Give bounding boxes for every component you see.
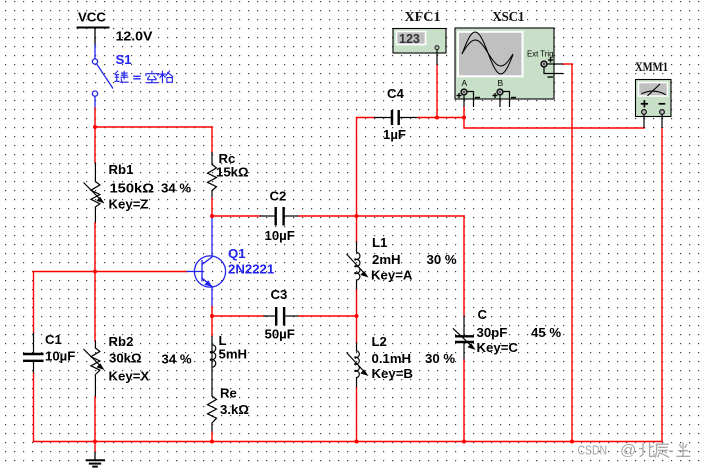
svg-text:VCC: VCC [78,10,106,25]
label key space [115,71,173,83]
junction ground rail at C [462,440,466,444]
transistor Q1 [194,256,225,287]
svg-text:10µF: 10µF [265,228,295,243]
wire collector blue [211,217,213,257]
svg-text:5mH: 5mH [219,347,248,362]
instrument XMM1 multimeter [635,60,671,128]
wire Rb1 lead bottom black [94,207,96,223]
capacitor C (variable) [455,336,474,342]
svg-text:30 %: 30 % [425,351,455,366]
wire row VCC node to Rc top [95,126,212,128]
inductor L [210,345,216,368]
svg-text:50µF: 50µF [265,327,295,342]
svg-text:Key=Z: Key=Z [109,197,149,212]
svg-text:Ext Trig: Ext Trig [527,50,553,59]
wire Rc lead top black [211,153,213,165]
wire XFC1 drop red [436,65,438,118]
svg-text:30pF: 30pF [477,325,508,340]
wire C4 row left red [357,117,375,119]
scope B terminal [497,89,503,95]
wire Rb2 top red [94,272,96,342]
hyphen [669,450,672,452]
XFC1 terminal [435,46,439,50]
scope trace big [462,32,513,74]
svg-text:S1: S1 [116,52,132,67]
svg-text:Rb1: Rb1 [109,162,134,177]
wire scope A plus drop red [463,107,465,118]
svg-text:45 %: 45 % [531,325,561,340]
wire scope A minus stub [467,92,474,108]
svg-text:XSC1: XSC1 [492,9,524,24]
wire L lead / L to Re black [211,337,213,397]
svg-text:2N2221: 2N2221 [228,262,274,277]
wire C3 left lead black [264,315,275,317]
wire XMM1 minus down red [661,128,663,442]
svg-text:C3: C3 [271,287,288,302]
XMM1 minus terminal [660,110,665,115]
wire Rc bottom to collector node [211,198,213,216]
switch S1 [92,59,113,96]
wire C3 row left [212,315,264,317]
glyph 北 [640,443,654,457]
resistor Rb2 (potentiometer) [84,348,105,375]
capacitor C2 [276,207,284,226]
capacitor C4 [392,110,399,125]
svg-text:CSDN: CSDN [578,443,608,458]
wire emitter node to L top [211,316,213,337]
svg-text:Key=A: Key=A [371,268,413,283]
wire scope B minus stub [503,92,510,108]
XMM1 plus terminal [642,110,647,115]
wire ext trig plus black [547,63,563,65]
wire Rb1 lead top black [94,163,96,182]
watermark [578,442,690,459]
svg-text:C: C [478,307,488,322]
wire ext trig minus stub [544,67,563,74]
wire L2 bottom red [356,388,358,442]
wire Rc top red [211,127,213,153]
svg-text:30 %: 30 % [427,252,457,267]
scope trace small [462,40,513,66]
glyph 尘 [677,443,690,456]
svg-text:C4: C4 [387,86,405,101]
svg-text:Rb2: Rb2 [109,334,134,349]
glyph 辰 [655,444,669,457]
wire ext trig plus red [563,63,572,65]
wire VCC lead black [94,28,96,46]
resistor Rc [208,165,217,191]
wire emitter blue [211,287,213,307]
wire S1 to node VB [94,108,96,127]
svg-text:Key=X: Key=X [109,369,150,384]
svg-text:150kΩ: 150kΩ [110,181,155,196]
wire C2 to node L1 top [299,215,357,217]
glyph 格 [159,71,172,83]
svg-text:Key=C: Key=C [477,340,519,355]
svg-text:Re: Re [220,386,237,401]
wire L1 leads black [356,242,358,252]
svg-text:30kΩ: 30kΩ [109,351,142,366]
wire Rb2 lead top black [94,341,96,348]
junction ground rail at Re [210,440,214,444]
junction node VB (95,127) [93,125,97,129]
wire Re lead bottom black [211,423,213,432]
wire C4 corner vertical [356,118,358,217]
svg-text:XMM1: XMM1 [635,60,668,74]
junction base node (95,271.5) [93,270,97,274]
junction L2 top (356.5,316) [355,314,359,318]
wire variable cap C top lead black [463,316,465,335]
wire x464 column lower red [463,360,465,442]
wire Rb2 bottom red [94,397,96,442]
glyph 键 [115,71,119,81]
svg-text:3.kΩ: 3.kΩ [220,402,249,417]
instrument XSC1 oscilloscope [455,9,563,107]
wire L1 bottom red [356,290,358,316]
svg-text:1µF: 1µF [383,127,406,142]
wire L2 leads black [356,343,358,351]
wire A-node down then right to XMM1 [464,118,644,129]
ground [86,452,105,467]
svg-text:A: A [462,78,468,88]
wire XMM1 minus stub black [661,115,663,129]
svg-text:L1: L1 [372,235,387,250]
scope A terminal [461,89,467,95]
wire Rb2 lead bottom black [94,375,96,397]
svg-text:10µF: 10µF [45,349,75,364]
svg-text:12.0V: 12.0V [116,29,153,44]
capacitor C1 [23,354,44,361]
capacitor C3 [276,307,284,326]
wire base row red [34,271,188,273]
wire C1 bottom lead black [33,362,35,374]
wire emitter to C3 node [211,307,213,317]
inductor L1 (variable) [347,253,369,281]
wire XFC1 terminal lead black [436,50,438,66]
svg-text:Q1: Q1 [228,246,246,261]
svg-text:XFC1: XFC1 [405,9,441,24]
wire node VB to Rb1 top [94,127,96,163]
junction A node (464,117.5) [462,116,466,120]
wire C2 left lead black [261,215,275,217]
wire x464 column upper red [463,216,465,316]
wire C4 right lead black [400,117,418,119]
wire Re bottom red [211,432,213,442]
svg-text:34 %: 34 % [161,181,191,196]
junction emitter node (212,316) [210,314,214,318]
ext trig terminal [541,61,547,67]
junction collector node (212,216) [210,214,214,218]
wire C1 top lead black [33,333,35,353]
wire C2 right lead black [285,215,299,217]
glyph = [134,76,140,79]
VCC power symbol [77,10,110,28]
wire Rc lead bottom black [211,191,213,199]
wire scope A plus drop black [463,95,465,107]
wire C4 to A-node [418,117,464,119]
meter arc [642,91,667,95]
svg-text:123: 123 [399,32,420,46]
wire Rb1 bottom to base node [94,223,96,272]
wire bottom ground rail [34,441,663,443]
junction ground rail at ext trig column [570,440,574,444]
wire base blue [187,271,203,273]
meter needle [648,84,661,96]
instrument XFC1 frequency counter [393,9,446,65]
svg-text:B: B [498,78,504,88]
wire C1 column top red [33,272,35,334]
svg-text:15kΩ: 15kΩ [216,165,249,180]
wire S1 top lead blue [94,45,96,59]
wire collector node to C2 [212,215,261,217]
wire scope B plus stub [499,95,501,107]
svg-text:L2: L2 [372,334,387,349]
wire node L1top to x464 corner [357,215,465,217]
wire L2 top red [356,316,358,343]
svg-text:34 %: 34 % [162,352,192,367]
wire ext trig column down [571,64,573,442]
svg-text:Key=B: Key=B [372,366,413,381]
wire S1 bottom lead blue [94,96,96,108]
wire XMM1 plus stub black [643,115,645,129]
wire C3 right lead black [286,315,299,317]
svg-text:@: @ [620,442,637,459]
wire C1 bottom to ground rail [33,374,35,442]
svg-text:0.1mH: 0.1mH [372,351,412,366]
wire ground stub red [94,442,96,453]
resistor Rb1 (potentiometer) [84,182,105,208]
junction L1 top (356.5,216) [355,214,359,218]
svg-text:C2: C2 [270,189,287,204]
wire C4 left lead black [375,117,391,119]
junction XFC1 node (437,117.5) [435,116,439,120]
wire L1 top lead red [356,216,358,242]
junction ground rail at Rb2 [93,440,97,444]
resistor Re [208,396,217,423]
svg-text:2mH: 2mH [372,252,401,267]
svg-text:C1: C1 [45,332,62,347]
glyph 空 [146,71,158,83]
inductor L2 (variable) [347,351,369,378]
wire C3 to node L2 top [299,315,357,317]
wire variable cap C bottom lead black [463,344,465,361]
junction ground rail at L2 [355,440,359,444]
